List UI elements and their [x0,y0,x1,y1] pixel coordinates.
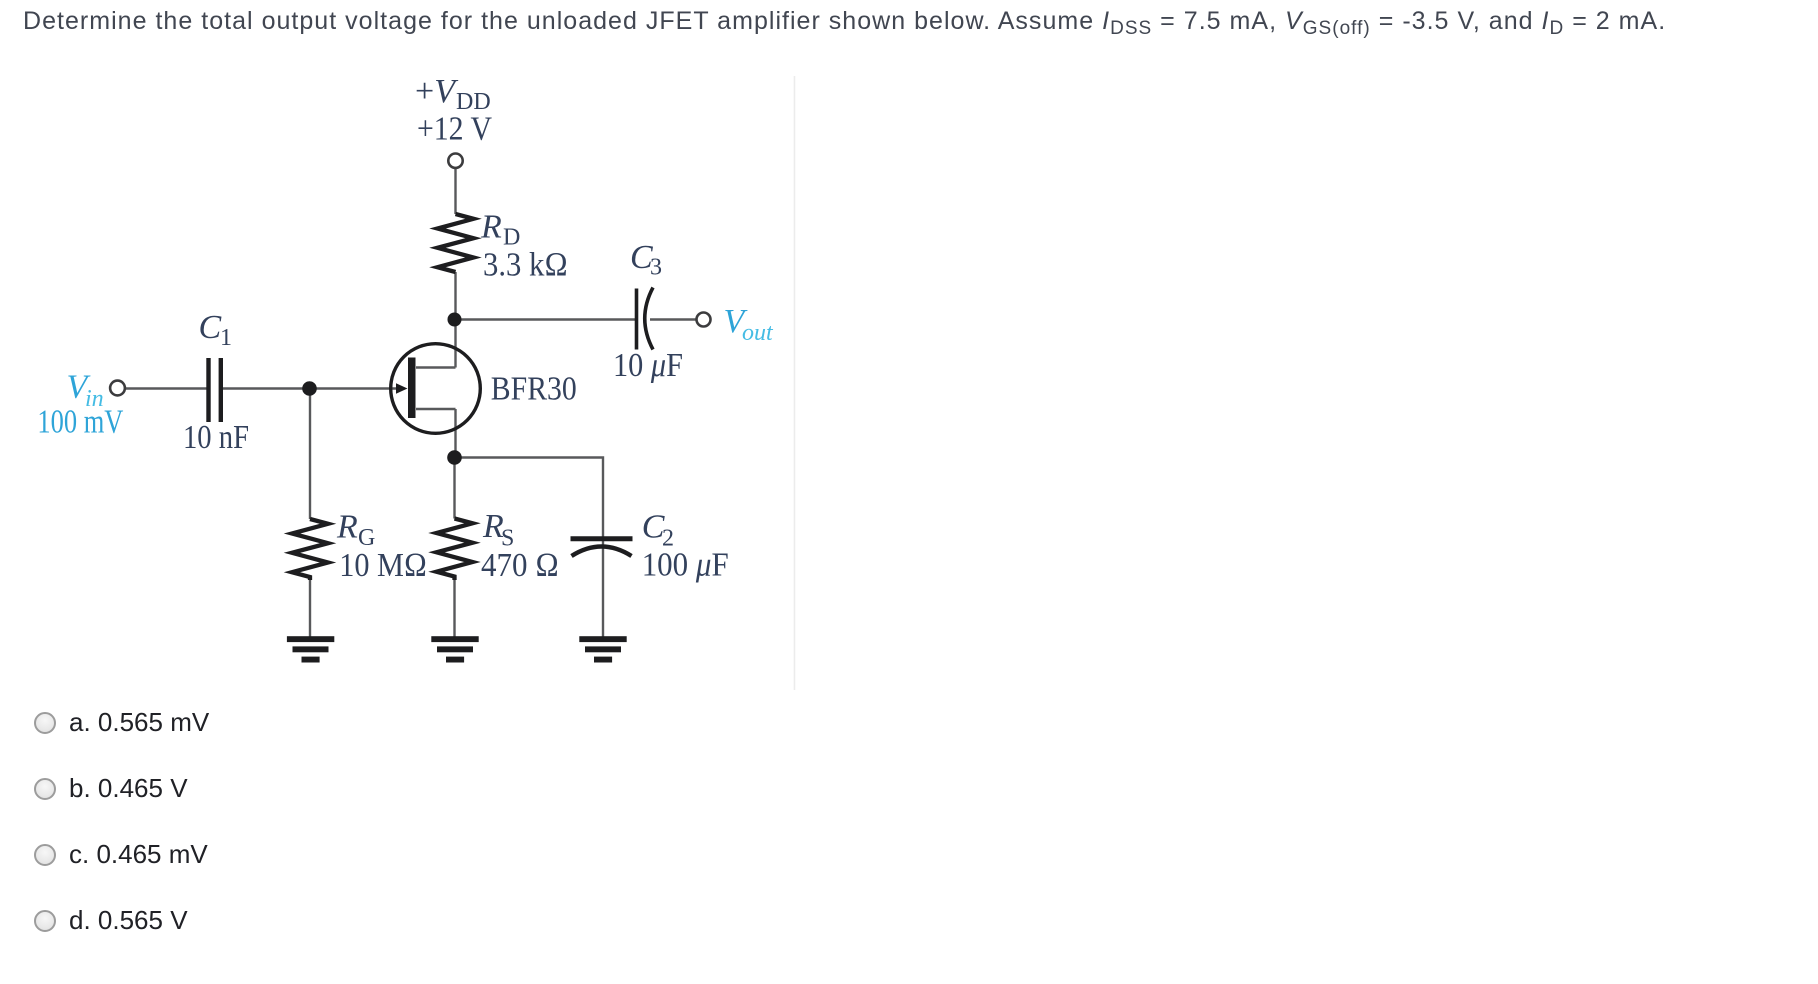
ground 3 [579,636,626,662]
wire RG bottom to ground [309,580,311,638]
ground 2 [431,636,478,662]
JFET source lead [416,408,456,411]
resistor RD [438,214,474,272]
wire RD bottom to drain node [454,272,456,320]
svg-text:R: R [480,209,502,246]
node B gate node [302,381,317,396]
svg-text:R: R [336,509,358,546]
wire gate node to JFET gate [310,387,398,389]
wire JFET source to source node [454,409,456,458]
node A drain node [448,313,462,327]
wire source node to C2 [455,458,604,639]
wire source node to RS [453,458,455,519]
wire RS bottom to ground [453,580,455,638]
svg-text:10 nF: 10 nF [183,419,249,456]
ground 1 [287,636,334,662]
wire VDD terminal to RD [454,168,456,214]
wire drain node to JFET drain [454,320,456,368]
capacitor C2 [571,539,633,556]
resistor RS [437,519,473,581]
transistor Q1 BFR30 JFET [391,344,481,434]
wire Vin terminal to C1 [126,387,207,389]
wire drain node to C3 [456,318,637,320]
terminal Vin [110,381,125,396]
wire C3 to Vout terminal [650,318,696,320]
capacitor C3 [637,288,654,350]
terminal +VDD [448,154,462,168]
svg-text:1: 1 [220,325,232,351]
wire C1 to gate node [223,387,310,389]
svg-text:out: out [742,320,774,346]
svg-text:3: 3 [650,255,662,281]
resistor RG [292,519,328,580]
svg-text:BFR30: BFR30 [491,371,577,408]
wire gate node down to RG [309,389,311,520]
svg-text:3.3 kΩ: 3.3 kΩ [483,247,568,284]
svg-text:C: C [199,309,222,346]
terminal Vout [697,313,711,327]
svg-text:10 μF: 10 μF [613,347,683,384]
node C source node [447,450,462,465]
svg-text:470 Ω: 470 Ω [481,547,559,584]
svg-text:100 μF: 100 μF [642,547,729,584]
svg-text:10 MΩ: 10 MΩ [339,547,427,584]
svg-text:+12 V: +12 V [417,111,492,148]
capacitor C1 [209,358,221,422]
svg-text:100 mV: 100 mV [37,404,123,441]
svg-text:+V: +V [415,73,459,110]
JFET drain lead [416,366,456,369]
